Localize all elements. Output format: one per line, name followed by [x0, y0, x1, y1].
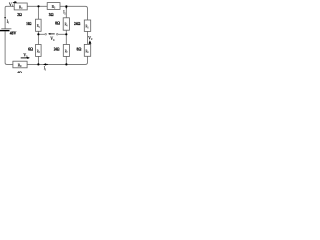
- svg-text:2Ω: 2Ω: [17, 12, 22, 17]
- wire R2 bottom through mid node1 to R6 top: [37, 31, 39, 44]
- resistor R2 box: [36, 19, 42, 31]
- svg-text:48V: 48V: [10, 30, 17, 35]
- arrow mid pointing left: [50, 33, 55, 35]
- node dot top chain1: [37, 5, 39, 7]
- arrow V2 up: [89, 42, 91, 44]
- wire mid link right segment: [58, 33, 66, 35]
- arrow V1 leader: [13, 1, 15, 3]
- node dot bottom chain1: [37, 63, 39, 65]
- node dot top chain2: [65, 5, 67, 7]
- resistor R9 box: [13, 61, 27, 68]
- svg-text:3Ω: 3Ω: [49, 12, 54, 17]
- svg-text:V1: V1: [9, 3, 14, 8]
- wire R4 bottom through mid node2 to R7 top: [65, 30, 67, 44]
- wire battery bottom to bottom-left corner into R9: [5, 31, 13, 64]
- wire top R3 to top-right corner down to R5: [60, 6, 88, 20]
- arrow I1 down on left wire: [4, 17, 6, 19]
- wire top node2 down to R4: [65, 6, 67, 17]
- resistor R1 box: [14, 3, 27, 10]
- svg-text:I2: I2: [63, 11, 66, 16]
- node dot mid chain1: [37, 33, 39, 35]
- svg-text:V2: V2: [88, 36, 93, 41]
- svg-text:24Ω: 24Ω: [54, 46, 60, 51]
- wire R6 bottom to bottom wire: [37, 56, 39, 64]
- battery plate thin long: [1, 28, 11, 30]
- resistor R7 box: [63, 45, 69, 57]
- resistor R5 box: [84, 20, 90, 31]
- arrow I2 down on chain2 wire: [65, 7, 67, 9]
- wire left side up to top-left corner into R1: [5, 6, 14, 28]
- svg-text:8Ω: 8Ω: [77, 47, 82, 52]
- terminal circle left: [45, 34, 47, 36]
- arrow V5 right: [21, 57, 28, 59]
- svg-text:8Ω: 8Ω: [55, 20, 60, 25]
- wire top node1 down to R2: [37, 6, 39, 19]
- wire R7 bottom to bottom wire: [65, 56, 67, 64]
- resistor R4 box: [63, 18, 69, 30]
- resistor R8 box: [84, 44, 90, 56]
- svg-text:24Ω: 24Ω: [74, 21, 81, 26]
- battery plate thick: [0, 30, 10, 31]
- svg-text:I3: I3: [44, 67, 46, 72]
- svg-text:I1: I1: [7, 20, 10, 25]
- terminal circle right: [56, 34, 58, 36]
- node dot bottom chain2: [65, 63, 67, 65]
- resistor R6 box: [36, 45, 42, 57]
- wire bottom R9 to bottom-right corner up to R8: [27, 56, 87, 64]
- wire top R1 to R3: [27, 5, 47, 7]
- wire mid link left segment: [38, 33, 44, 35]
- arrow I3 left on bottom wire: [46, 63, 48, 65]
- svg-text:4Ω: 4Ω: [17, 70, 22, 73]
- svg-text:V4: V4: [50, 37, 55, 42]
- svg-text:16Ω: 16Ω: [26, 21, 31, 26]
- wire R5 bottom to R8 top: [87, 31, 89, 44]
- node dot mid chain2: [65, 33, 67, 35]
- svg-text:6Ω: 6Ω: [28, 47, 33, 52]
- resistor R3 box: [47, 3, 60, 10]
